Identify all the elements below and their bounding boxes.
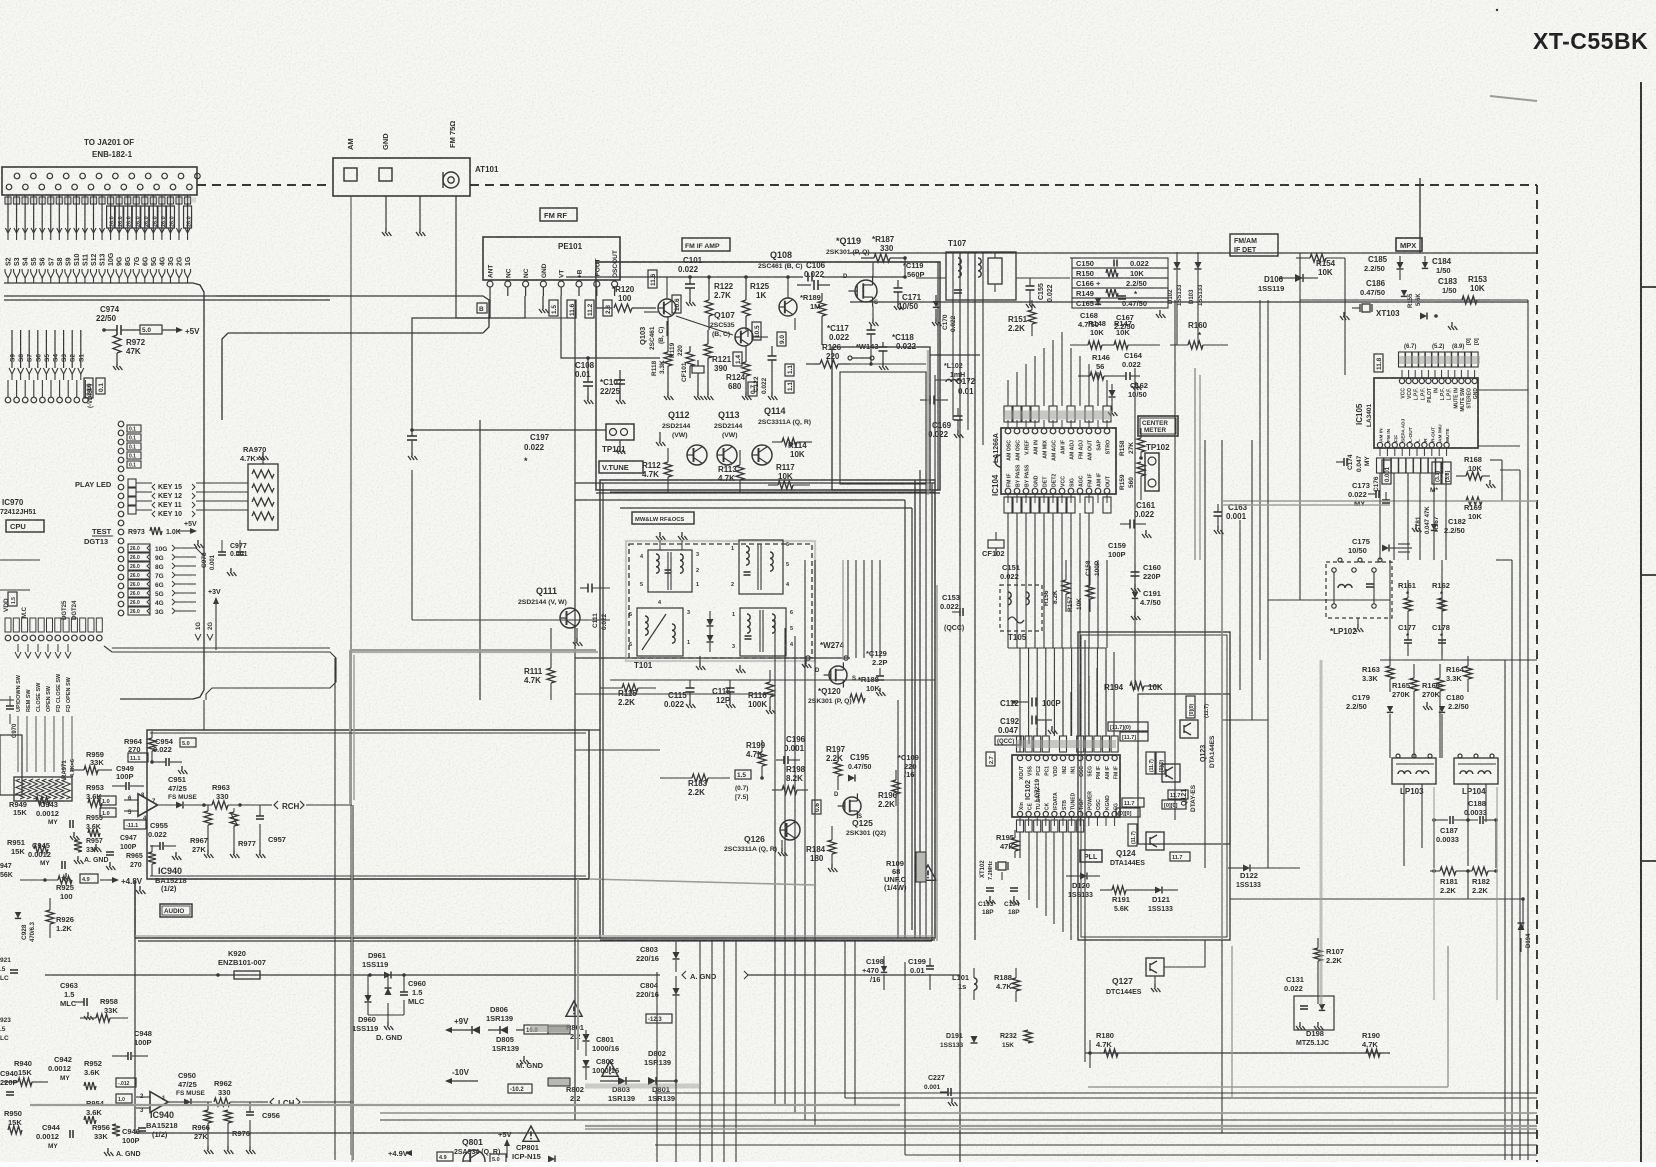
AUDIO label — [160, 904, 192, 917]
resistor R119 — [686, 352, 694, 366]
capacitor C174 sym — [1336, 461, 1344, 463]
box around pll transistors inner — [1138, 694, 1230, 844]
R109 hatch — [916, 852, 926, 882]
wire h 750 — [575, 749, 660, 751]
wire c150row left — [1070, 257, 1080, 259]
MW LW RF OCS label — [632, 512, 694, 524]
+9V arrow — [445, 1027, 452, 1033]
wire t107 in — [916, 277, 946, 279]
warning Q801 — [523, 1126, 539, 1141]
IC970 top pin boxes — [127, 425, 141, 432]
transistor Q113 — [717, 445, 737, 465]
gray h 962 ext — [880, 974, 960, 976]
wire vert 975 — [974, 253, 976, 940]
transistor Q111 — [560, 608, 580, 628]
LP104 box — [1454, 758, 1498, 784]
transistor Q127 — [1146, 958, 1164, 976]
connector JA201 Y-joints — [5, 272, 11, 278]
ground cpu mid — [194, 540, 203, 548]
wire am bus 492 — [610, 491, 935, 493]
capacitor C184 — [1422, 262, 1428, 268]
resistor R154 — [1310, 254, 1326, 262]
K920 jumper — [234, 971, 260, 979]
resistor R112 — [664, 462, 672, 477]
gray vert 937 — [936, 585, 938, 941]
hatch R801a — [548, 1026, 570, 1034]
resistor R191 sym — [1112, 886, 1126, 894]
transformer B1 core — [637, 608, 683, 656]
resistor R168 sym — [1466, 472, 1482, 480]
box 5.0 — [140, 325, 162, 334]
gray vert 1448 — [1447, 946, 1449, 1087]
value row R150 — [1072, 268, 1168, 278]
test point TP101 — [606, 424, 634, 440]
ground TP101 — [619, 440, 621, 446]
wire vert 960 — [959, 253, 961, 1162]
capacitor C162 — [1109, 390, 1116, 397]
gray band 940 — [135, 935, 935, 937]
capacitor C173 sym — [1368, 493, 1376, 495]
wire h 899 — [1230, 898, 1523, 900]
capacitor C199 sym — [929, 958, 931, 966]
PE101 pin1 wire — [489, 296, 491, 303]
resistor R166 sym — [1436, 678, 1444, 691]
vbox 24.0 — [84, 378, 93, 398]
transformer A2 coils — [746, 546, 749, 552]
+5V arrow cpu — [178, 530, 190, 532]
vbox 1.4 — [733, 352, 742, 366]
ground T101 — [699, 656, 701, 662]
gray ic102 pinbox band — [1016, 740, 1116, 748]
FM det inner box — [840, 372, 926, 484]
diode D106 — [1295, 274, 1303, 282]
wire bottom mid horizontals — [440, 1132, 655, 1134]
resistors R148 R147 — [1088, 341, 1102, 349]
IC104 bottom pins — [1005, 488, 1011, 494]
vbox 11.1 — [128, 753, 148, 762]
double line center box bottom — [138, 940, 932, 942]
resistor R120 — [614, 304, 632, 312]
vbox -12.3 — [646, 1014, 672, 1023]
gray trace vert 350 — [349, 650, 351, 805]
IC105 bottom value boxes — [1377, 458, 1384, 473]
resistor R107 sym — [1314, 948, 1322, 961]
capacitor C196 — [776, 759, 784, 761]
resistor R190 sym — [1366, 1049, 1380, 1057]
gray vert 352b — [351, 806, 353, 1162]
capacitor C101 — [689, 278, 691, 284]
vbox 1.5 pin5 — [549, 300, 558, 316]
wire v 1442 — [1441, 560, 1443, 660]
IC104 top value boxes — [1004, 406, 1012, 422]
MPX label — [1396, 238, 1422, 251]
FM IF AMP enclosure — [596, 262, 940, 490]
vbox 11.6 pin6 — [567, 300, 576, 318]
wire h 868 right — [1268, 867, 1300, 869]
transistor Q126 — [780, 820, 800, 840]
vbox Q123 b — [1186, 696, 1195, 718]
FM RF block label — [540, 208, 577, 221]
dashed border top segment right — [470, 184, 1537, 186]
wire vert 1222 — [1221, 440, 1223, 1133]
diode D121 sym — [1155, 887, 1162, 894]
resistor R146 — [1090, 372, 1104, 380]
connector JA201 pins — [14, 173, 20, 179]
vbox Q124 a — [1122, 798, 1144, 807]
wire q127 h — [1164, 940, 1205, 967]
capacitor C198 sym — [881, 966, 887, 972]
diode D801 sym — [648, 1077, 656, 1085]
capacitor C195 — [848, 775, 855, 782]
wire vert 1260 — [1259, 300, 1261, 660]
vbox 0.6 — [812, 800, 821, 814]
speck top — [1496, 9, 1498, 11]
resistor R159 — [1137, 462, 1145, 476]
wire h 720 stub — [1222, 719, 1268, 721]
wrap verts right — [904, 500, 906, 938]
wire vert 1085 — [1084, 640, 1086, 1062]
G value boxes — [128, 544, 150, 552]
LP103 box — [1392, 758, 1436, 784]
bus wrap second — [216, 296, 489, 420]
vbox 11.2 pin7 — [585, 300, 594, 318]
wire VT run — [412, 296, 525, 430]
double line fm box bottom — [596, 492, 940, 494]
gray vert 1321 — [1320, 660, 1323, 1005]
wire rch down — [352, 805, 354, 1160]
wire audio vert 204 — [203, 700, 205, 730]
varactor D2 — [707, 635, 714, 642]
IC104 top pins — [1005, 428, 1011, 434]
gray vert 1222b — [1221, 560, 1223, 940]
capacitor C106 — [797, 284, 811, 286]
KEY 15 label — [152, 484, 155, 490]
wire ic104 top runs — [1007, 380, 1009, 406]
KEY 11 label — [152, 502, 155, 508]
warning R802 — [602, 1061, 618, 1076]
ground Q126 — [781, 840, 783, 848]
resistor R122 — [705, 300, 713, 316]
wire v 905 — [904, 962, 906, 1155]
capacitor C119 — [897, 280, 899, 288]
IC104 bottom value boxes — [1004, 497, 1012, 513]
wire hmid 694 — [575, 693, 775, 695]
PE101 pins — [487, 281, 493, 287]
ground mpx — [1448, 322, 1457, 330]
+4.8V arrow — [58, 876, 72, 884]
ground Q112 — [659, 432, 661, 438]
resistor R160 — [1188, 341, 1203, 349]
gray h 1087 — [1088, 1086, 1448, 1088]
resistor R156 sym — [1062, 580, 1070, 594]
wire h 600 right — [1268, 599, 1390, 601]
KEY 10 label — [152, 511, 155, 517]
capacitor C974 — [116, 325, 118, 335]
connector JA201 box — [2, 167, 197, 195]
audio box right ext — [589, 729, 600, 731]
vbox Q123 a — [1108, 722, 1148, 731]
gray vert 354 — [353, 655, 355, 800]
resistor R198 — [782, 786, 797, 794]
wire mpx h446 — [1478, 445, 1520, 447]
wire q119 drain — [872, 262, 874, 277]
gray vert 1497 — [1496, 787, 1498, 1000]
AM tuner dashed box — [629, 544, 812, 658]
dashed border right vertical — [1536, 185, 1538, 1162]
transistor Q103 — [658, 299, 676, 317]
resistor R187 — [874, 254, 890, 262]
caps C193 C194 syms — [986, 887, 994, 889]
wire hmid 660 — [1380, 659, 1537, 661]
resistor R115 — [622, 684, 638, 692]
wire vert 1175 — [1174, 300, 1176, 820]
varactor D1 — [707, 619, 714, 626]
gray vert 843 — [842, 560, 844, 660]
gray hatch under q801 — [585, 1084, 700, 1089]
wire bottom 1145 — [655, 1144, 1537, 1146]
capacitor C122 — [771, 346, 773, 356]
ground R972 — [113, 362, 122, 370]
capacitor C107 — [619, 370, 621, 380]
resistor R180 sym — [1104, 1049, 1118, 1057]
resistor R126 — [820, 360, 838, 368]
hatch R802 — [548, 1078, 570, 1086]
ground AT101 FM shield — [416, 228, 425, 236]
wire band right of T101 — [847, 560, 849, 658]
wire vband 953-983 — [952, 253, 954, 420]
resistor R161 sym — [1404, 598, 1412, 611]
ground Q127 — [1154, 976, 1156, 984]
IC105 body — [1374, 378, 1478, 448]
gray vert 928 — [927, 350, 930, 495]
resistor R151 — [1028, 310, 1036, 324]
wire bottom rail — [1085, 1052, 1390, 1054]
wire q103 c — [666, 277, 668, 299]
IC105 top pins — [1399, 378, 1404, 383]
resistor R114 — [782, 438, 797, 446]
wire VT down long — [411, 429, 413, 431]
wire vbus 480 — [479, 420, 481, 700]
resistor R182 sym — [1472, 867, 1488, 875]
wire fm det bus — [850, 363, 926, 365]
IC104 notch — [995, 455, 1001, 467]
capacitor C177 sym — [1407, 622, 1409, 640]
capacitor C116 — [729, 680, 731, 688]
IC102 bottom pins — [1017, 811, 1022, 816]
crystal XT103 — [1359, 304, 1361, 312]
wire IF bus — [935, 379, 960, 381]
gray band top right — [1490, 96, 1537, 101]
wire hbus 300 — [4, 299, 330, 301]
wire v 1414 1440 — [1413, 702, 1415, 758]
wire lp outputs — [1403, 784, 1405, 866]
ground audio1 — [136, 886, 145, 894]
wire bottom vband — [656, 972, 658, 1162]
diode mute rch — [176, 802, 183, 809]
value row C166 — [1072, 278, 1168, 288]
wire FM signal — [456, 196, 462, 318]
resonator X101 — [988, 258, 1002, 284]
resistor R116 — [766, 682, 774, 697]
wire top bus 253b — [1300, 252, 1537, 254]
opamp IC940 rch — [138, 794, 158, 816]
resistor R196 — [892, 780, 900, 794]
wire gray audio bottom2 — [589, 879, 815, 885]
gray vert 1232 — [1231, 946, 1233, 1098]
C131 D198 pair — [1294, 996, 1334, 1030]
value row C150 — [1072, 258, 1168, 268]
dashed border top segment left — [197, 184, 332, 186]
LP104 coils — [1460, 771, 1466, 774]
transformer B1 coil diag — [642, 614, 666, 650]
wire top h 262 — [596, 261, 940, 263]
transistor Q121 — [1162, 764, 1180, 782]
wire h 648 cpu — [112, 647, 330, 649]
vbox 10.5 — [752, 322, 761, 340]
capacitor C188 sym — [1434, 819, 1448, 821]
diode C183 sym — [1420, 313, 1427, 320]
wire FM mid stub — [419, 196, 421, 228]
FM front-end PE101 box — [483, 237, 620, 280]
wire v tune down — [411, 470, 413, 620]
-10V arrow — [445, 1078, 452, 1084]
double line audio box — [150, 732, 586, 734]
wire AM down — [350, 196, 352, 1155]
transformer A1 gnd — [659, 540, 661, 550]
resistor R972 — [113, 335, 121, 353]
transformer T107 box — [946, 252, 1016, 300]
wire vert 1205 — [1204, 440, 1206, 868]
IC105 bottom pins — [1377, 442, 1382, 447]
T105 dashed box — [1000, 585, 1042, 631]
vbox 0.2 lch — [116, 1078, 136, 1087]
wire left vert 135 — [134, 880, 136, 1133]
capacitor C182 sym — [1431, 524, 1437, 530]
wire v 1345 — [1344, 258, 1346, 375]
wire right nest 2 — [1511, 560, 1513, 1160]
capacitor C185 — [1397, 262, 1404, 269]
resistor R164 sym — [1464, 666, 1472, 679]
LP103 coils — [1398, 771, 1404, 774]
ground RA970 — [262, 458, 264, 464]
wire vert 935 — [934, 375, 936, 480]
wire 1062 stubs — [1089, 1040, 1091, 1068]
wire h 501 gray — [1222, 500, 1537, 502]
capacitor C197 — [411, 430, 413, 436]
RA970 box — [248, 464, 278, 530]
IC102 top value boxes — [1017, 736, 1024, 752]
V.TUNE block label — [599, 461, 643, 473]
connector S-row pins — [5, 397, 11, 403]
wire GND down — [385, 196, 387, 228]
wire vert 1300 — [1299, 253, 1301, 600]
FM 75ohm coax jack — [443, 172, 459, 188]
LP102 coil — [1338, 585, 1345, 589]
wire band below IC105 — [1379, 473, 1381, 560]
ground LP102 — [1357, 618, 1359, 624]
resistor R158 — [1137, 438, 1145, 452]
bus wrap upper — [4, 283, 204, 699]
label QCC2 — [995, 736, 1021, 745]
capacitor C118 — [882, 342, 884, 347]
wire ic102 bottom runs — [1019, 832, 1021, 858]
resistor R169 sym — [1466, 497, 1482, 505]
Q801 sym — [463, 1150, 485, 1167]
wire 940 box bottom — [600, 939, 935, 941]
fet Q120 — [829, 666, 847, 684]
fold tick 2 — [1641, 574, 1656, 576]
capacitor C161 — [1120, 523, 1130, 525]
vbox 10.0 — [524, 1025, 548, 1034]
transistor Q107 — [735, 328, 753, 346]
transformer B2 core — [740, 608, 786, 656]
resistor R181 sym — [1440, 867, 1456, 875]
diode D806 sym — [472, 1026, 480, 1034]
bus line lower — [4, 295, 330, 297]
vbox 1.5b — [735, 770, 751, 779]
wire ic102 top runs — [1019, 736, 1021, 752]
gray trace bottom band2 — [380, 1112, 1537, 1114]
resistor R963 sym — [212, 801, 228, 809]
wire G bus right — [196, 548, 204, 620]
wire h 1093 — [655, 1092, 1537, 1094]
resistor R118 — [664, 352, 672, 366]
vbox 0.7 — [748, 382, 757, 396]
value row C165 — [1072, 298, 1168, 308]
wire 1268 vert — [1267, 300, 1269, 868]
wire 1240 vert — [1239, 520, 1241, 690]
wire IFOUT — [596, 296, 612, 308]
IC102 bottom value boxes — [1017, 820, 1024, 832]
transformer A1 coils — [656, 554, 659, 560]
wire fmif top rail — [566, 276, 803, 278]
diode D960 pair — [365, 995, 372, 1002]
wire v855 bottom — [854, 940, 856, 1105]
vbox 10.6 — [672, 295, 681, 313]
vbox -10.2 — [508, 1084, 532, 1093]
vbox 0.1a — [96, 378, 105, 394]
RA970 resistors — [252, 470, 274, 478]
resistor R188 — [850, 694, 865, 702]
LP102 pins — [1332, 568, 1336, 572]
IC102 body — [1012, 755, 1120, 817]
gray trace bottom band3 — [585, 1125, 1537, 1127]
capacitor C115 — [689, 680, 691, 688]
capacitor C192 sym — [1031, 716, 1033, 725]
ground AT101 GND — [382, 228, 391, 236]
vbox Q121 a — [1146, 752, 1155, 774]
ground C182 — [1412, 524, 1421, 532]
capacitor C111 — [580, 587, 588, 589]
gray band y660 — [352, 651, 598, 653]
warning D805 — [566, 1001, 582, 1016]
double line center box right — [931, 483, 933, 941]
diode D122 sym — [1243, 865, 1250, 872]
capacitor C160 sym — [1134, 565, 1136, 572]
vbox 2.8 pin8 — [603, 300, 612, 316]
audio box — [147, 730, 589, 879]
wire vert cluster a — [774, 620, 776, 1105]
capacitor C108 — [587, 358, 589, 382]
ground Q111 — [576, 628, 578, 638]
B box — [477, 303, 487, 313]
gray trace v578 — [577, 879, 579, 1050]
wire gray audio bottom — [147, 878, 589, 880]
wire audio in vert — [814, 559, 816, 561]
node row above LP — [1338, 558, 1342, 562]
diode D120 sym — [1080, 873, 1087, 880]
wire TP101 left — [412, 429, 606, 431]
